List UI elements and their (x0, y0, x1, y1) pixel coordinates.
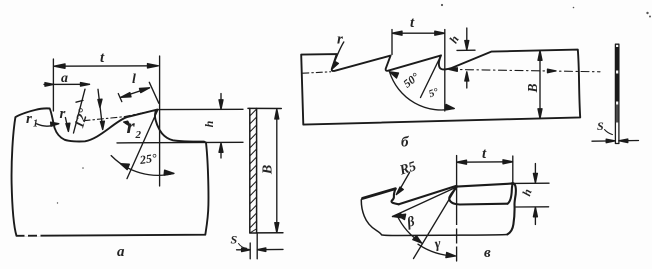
svg-text:t: t (410, 15, 415, 31)
svg-text:25°: 25° (138, 151, 158, 167)
svg-text:β: β (405, 214, 417, 231)
svg-text:R5: R5 (397, 159, 418, 179)
svg-text:в: в (484, 245, 491, 261)
svg-text:В: В (525, 83, 540, 93)
svg-text:r: r (26, 111, 32, 127)
svg-text:r: r (60, 106, 66, 122)
svg-text:1: 1 (33, 119, 38, 130)
svg-text:h: h (446, 33, 462, 46)
svg-text:б: б (401, 135, 409, 151)
svg-text:a: a (61, 71, 68, 86)
svg-text:r: r (337, 32, 343, 48)
svg-text:S: S (597, 119, 604, 133)
svg-text:В: В (261, 165, 276, 175)
svg-text:γ: γ (434, 236, 442, 252)
svg-text:t: t (100, 50, 105, 66)
svg-text:l: l (132, 72, 136, 87)
svg-text:2: 2 (135, 129, 142, 141)
svg-text:12°: 12° (72, 107, 92, 130)
svg-text:h: h (519, 187, 534, 198)
svg-text:h: h (202, 120, 216, 127)
svg-text:r: r (127, 114, 136, 138)
svg-text:S: S (231, 233, 238, 247)
svg-text:а: а (117, 244, 125, 260)
svg-text:t: t (482, 146, 487, 162)
